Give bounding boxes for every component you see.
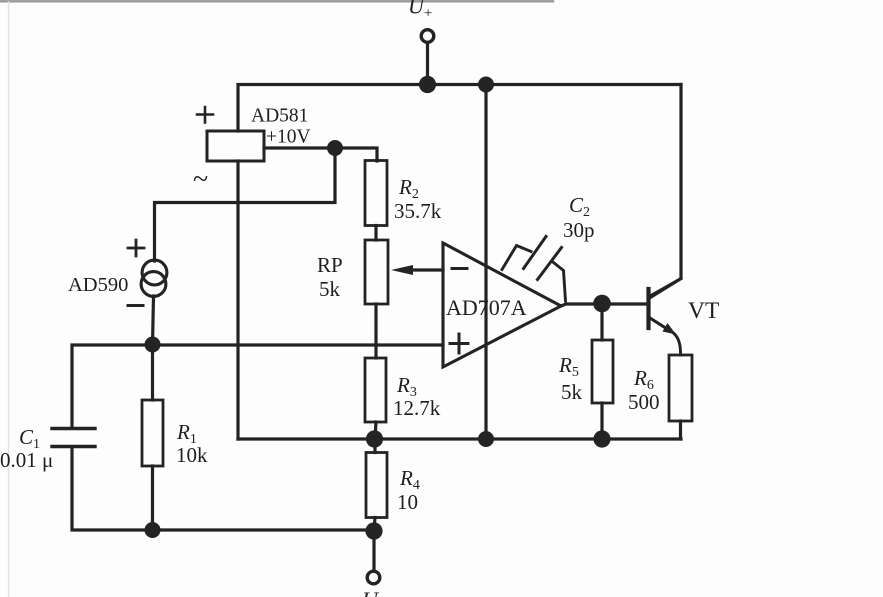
wire U+ stub [426,44,429,84]
wire AD581 minus down [236,161,239,439]
capacitor C2 plate 1 [524,237,547,269]
svg-text:VT: VT [688,298,719,324]
capacitor C2 plate 2 [538,248,562,280]
transistor VT collector [650,279,681,297]
svg-text:AD581: AD581 [251,106,308,127]
junction dot U+ on top rail [419,76,436,93]
wire collector riser [651,85,681,298]
svg-text:~: ~ [193,164,208,195]
wire R6 bottom lead [679,421,682,439]
wire R4 top lead [373,439,376,453]
svg-text:AD707A: AD707A [446,295,527,320]
resistor R6 body [669,355,692,421]
capacitor C2 lead right [554,263,566,302]
wire AD590 to node A [153,296,154,345]
wire emitter to R6 [674,334,681,356]
svg-text:+10V: +10V [266,127,311,148]
wire RP wiper to inverting input [410,268,443,271]
transistor VT emitter [650,318,668,330]
resistor R1 body [142,400,163,466]
potentiometer RP body [365,240,388,304]
wire R5 top lead [600,304,603,341]
svg-text:R4: R4 [399,466,420,493]
svg-text:500: 500 [628,390,660,414]
junction dot op-amp supply on top rail [478,77,494,93]
wire middle rail [238,437,681,440]
resistor R2 body [365,161,387,226]
svg-text:10: 10 [397,490,418,514]
current source AD590 [141,260,167,296]
wire R5 bottom lead [600,403,603,439]
svg-text:U: U [362,587,380,597]
label AD590 minus [128,304,143,307]
wire noninverting input rail [72,345,443,428]
junction dot output node [593,295,611,313]
RP wiper arrowhead [391,265,413,275]
resistor R5 body [592,340,613,403]
label AD581 plus pin [197,107,213,123]
wire U- stub [372,531,375,569]
wire C1 bottom lead [72,447,374,531]
wire R4 bottom lead [374,518,375,532]
wire op-amp supply vertical [484,85,487,440]
wire R1 top lead [151,345,154,401]
junction dot R1 bottom [145,522,161,538]
wire AD581 output to R2 [264,148,377,161]
svg-text:RP: RP [317,253,343,277]
wire R1 bottom lead [151,466,154,530]
junction dot node A (AD590/R1/rail) [145,337,161,353]
svg-text:C2: C2 [569,193,590,220]
svg-text:35.7k: 35.7k [394,199,442,223]
svg-text:10k: 10k [176,443,208,467]
capacitor C2 lead left [502,246,531,270]
regulator AD581 body [207,131,264,161]
label AD590 plus [128,240,144,256]
junction dot op-amp supply bottom [478,431,494,447]
junction dot AD581 output [327,140,343,156]
wire R2 to RP [374,226,377,241]
junction dot R4 bottom [365,522,382,539]
svg-text:0.01 μ: 0.01 μ [0,448,53,472]
svg-text:5k: 5k [319,277,341,301]
junction dot R3/R4 [366,430,383,447]
wire RP to R3 [374,304,377,358]
svg-text:5k: 5k [561,380,583,404]
wire R3 bottom lead [375,422,376,439]
capacitor C1 plates [52,427,95,430]
wire op-amp output [561,304,647,306]
wire AD581 output to AD590 plus [155,148,336,261]
svg-text:R6: R6 [633,366,654,393]
terminal U- [367,571,380,584]
transistor VT base bar [646,289,650,328]
op-amp noninverting input mark [450,334,468,353]
svg-text:AD590: AD590 [68,274,128,296]
junction dot R5 bottom [593,430,610,447]
svg-text:R5: R5 [558,353,579,380]
svg-text:12.7k: 12.7k [393,396,441,420]
svg-text:U+: U+ [408,0,432,22]
svg-text:30p: 30p [563,218,595,242]
op-amp inverting input mark [452,267,467,270]
terminal U+ [421,30,434,43]
resistor R4 body [366,453,387,518]
resistor R3 body [365,358,386,422]
op-amp U1 AD707A triangle [443,243,561,367]
svg-text:R2: R2 [398,175,419,202]
transistor VT emitter arrowhead [663,323,677,335]
wire top supply rail [238,85,681,132]
